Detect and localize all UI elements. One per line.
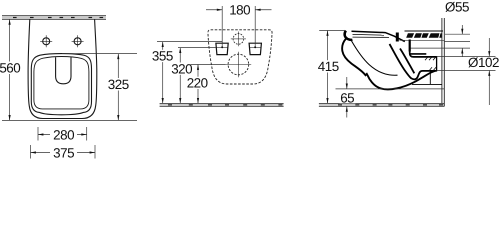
svg-text:325: 325 (108, 77, 129, 92)
svg-text:220: 220 (187, 76, 208, 91)
svg-text:65: 65 (340, 91, 354, 106)
svg-text:355: 355 (152, 49, 173, 64)
svg-text:Ø102: Ø102 (468, 55, 499, 70)
svg-text:560: 560 (0, 61, 20, 76)
svg-text:280: 280 (53, 127, 74, 142)
svg-text:180: 180 (229, 3, 250, 18)
svg-text:375: 375 (53, 145, 74, 160)
svg-text:Ø55: Ø55 (445, 0, 469, 14)
svg-text:320: 320 (171, 61, 192, 76)
svg-text:415: 415 (318, 59, 339, 74)
